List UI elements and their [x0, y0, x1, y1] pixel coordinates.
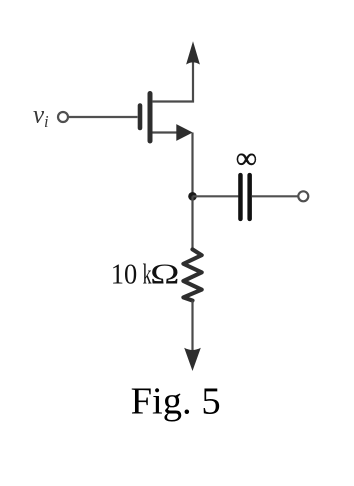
- wire node to capacitor: [193, 195, 239, 197]
- svg-text:Fig. 5: Fig. 5: [131, 381, 221, 423]
- arrow to supply: [186, 41, 200, 64]
- svg-text:10: 10: [111, 259, 137, 290]
- wire drain: [152, 60, 193, 102]
- input terminal circle: [58, 112, 68, 122]
- output terminal circle: [298, 191, 308, 201]
- mosfet channel bar: [148, 94, 153, 142]
- wire source to node: [191, 133, 193, 197]
- resistor R 10k zigzag: [183, 249, 201, 300]
- wire gate: [69, 116, 138, 118]
- arrow at source: [176, 124, 192, 141]
- node: [188, 192, 197, 201]
- capacitor plate right: [247, 173, 252, 221]
- wire resistor to ground arrow: [191, 301, 193, 352]
- svg-text:∞: ∞: [236, 142, 257, 175]
- mosfet gate bar: [138, 106, 143, 129]
- wire source: [153, 131, 179, 133]
- arrow to negative supply: [184, 348, 201, 371]
- svg-text:Ω: Ω: [150, 259, 179, 290]
- svg-text:i: i: [44, 112, 49, 131]
- wire capacitor to output: [252, 195, 299, 197]
- wire node to resistor: [191, 196, 193, 250]
- capacitor plate left: [238, 173, 243, 221]
